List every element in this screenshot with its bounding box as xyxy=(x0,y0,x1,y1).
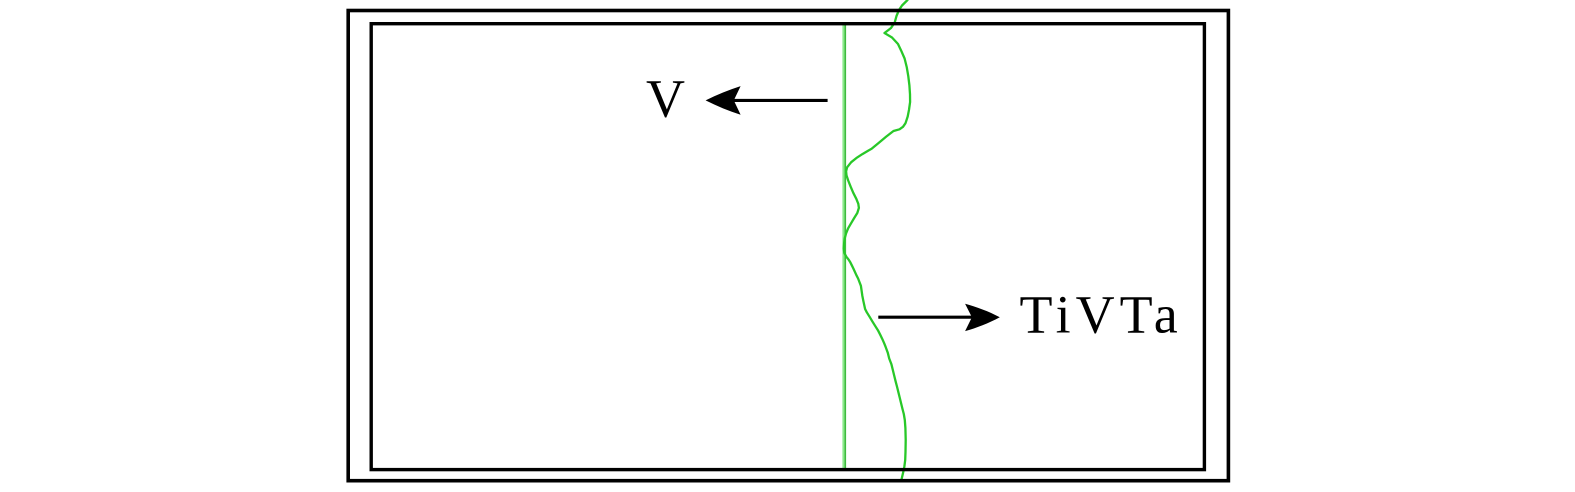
TiVTa arrow shaft xyxy=(878,316,994,319)
straight V profile line (dark green edge) xyxy=(845,25,847,469)
svg-text:V: V xyxy=(646,69,685,129)
TiVTa arrowhead (points right) xyxy=(965,304,1000,331)
svg-text:TiVTa: TiVTa xyxy=(1020,285,1183,345)
inner frame xyxy=(371,24,1204,470)
straight V profile line (light green) xyxy=(842,25,844,469)
V arrowhead (points left) xyxy=(706,86,741,115)
V arrow shaft xyxy=(712,99,828,102)
TiVTa interface curve xyxy=(844,0,910,480)
outer frame xyxy=(348,11,1228,481)
